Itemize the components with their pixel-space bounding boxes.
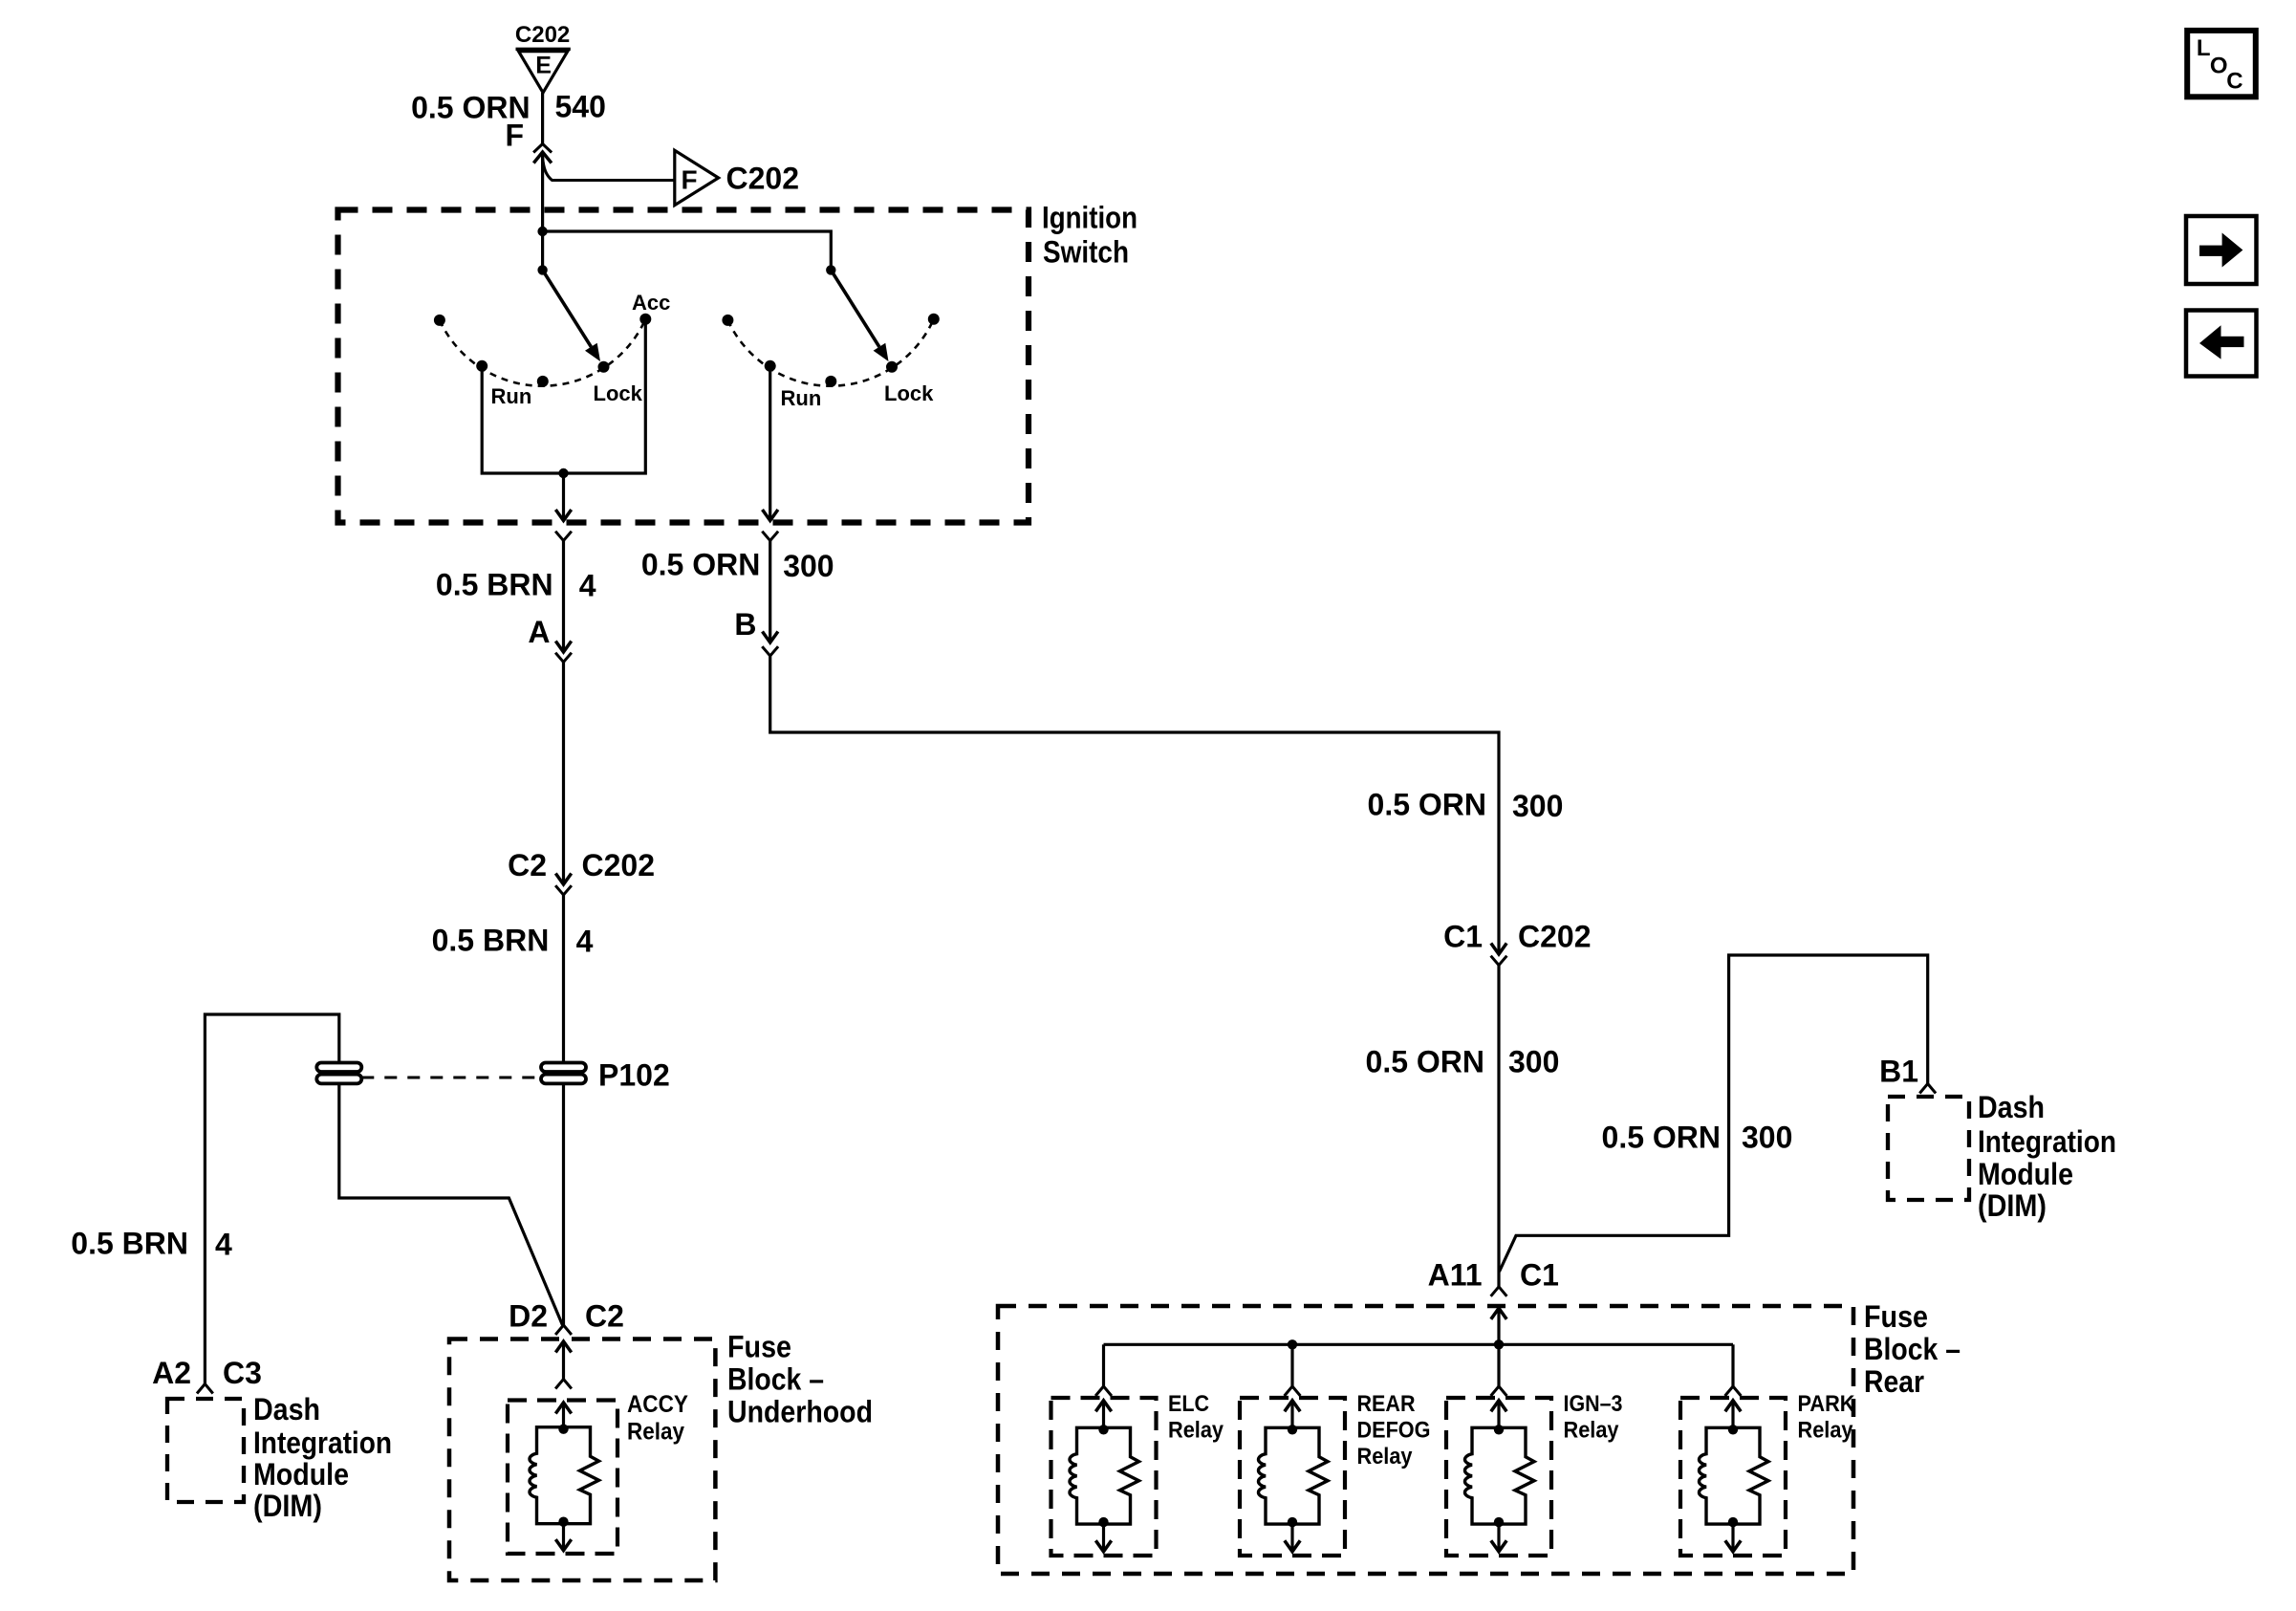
svg-text:Lock: Lock	[594, 381, 643, 405]
svg-text:IGN–3: IGN–3	[1564, 1391, 1623, 1417]
arrow out of IGN-3 relay	[1497, 1524, 1500, 1552]
svg-text:C2: C2	[585, 1299, 624, 1334]
svg-text:Dash: Dash	[253, 1392, 320, 1426]
svg-text:4: 4	[576, 924, 594, 958]
svg-text:Ignition: Ignition	[1042, 201, 1137, 235]
PARK relay dashed box	[1680, 1398, 1786, 1556]
ignition switch dashed box	[338, 210, 1029, 523]
svg-text:540: 540	[555, 89, 606, 123]
bus drop to IGN-3 relay	[1497, 1344, 1500, 1386]
svg-text:300: 300	[1512, 789, 1563, 823]
ELC relay dashed box	[1051, 1398, 1157, 1556]
svg-text:4: 4	[579, 568, 596, 602]
svg-text:F: F	[505, 118, 524, 152]
wire 540 from C202-E down	[541, 93, 544, 144]
svg-text:0.5 ORN: 0.5 ORN	[1368, 787, 1486, 821]
chevron below ignition switch (right output)	[762, 532, 778, 541]
svg-text:Block –: Block –	[1864, 1332, 1960, 1366]
bus drop to ELC relay	[1102, 1344, 1105, 1386]
svg-text:C202: C202	[1518, 919, 1592, 953]
svg-text:0.5 ORN: 0.5 ORN	[1602, 1120, 1721, 1154]
chevron at ELC relay input	[1095, 1386, 1112, 1396]
svg-text:C1: C1	[1520, 1258, 1559, 1293]
Dash Integration Module (DIM) dashed box (left)	[167, 1399, 244, 1502]
svg-text:0.5 ORN: 0.5 ORN	[641, 548, 760, 582]
svg-text:0.5 BRN: 0.5 BRN	[71, 1227, 188, 1261]
arrow out of ELC relay	[1102, 1524, 1105, 1552]
arrow into PARK relay	[1725, 1401, 1741, 1412]
right switch contact arc (dashed)	[727, 319, 933, 386]
REAR DEFOG relay dashed box	[1240, 1398, 1345, 1556]
chevron below ignition switch (left output)	[555, 532, 572, 541]
svg-text:Run: Run	[781, 386, 822, 410]
svg-text:F: F	[681, 165, 697, 195]
chevron into DIM at A2	[197, 1384, 213, 1394]
arrow out of PARK relay	[1731, 1524, 1734, 1552]
right switch arm (wiper) with arrow	[831, 270, 879, 346]
chevron at IGN-3 relay input	[1491, 1386, 1507, 1396]
svg-text:DEFOG: DEFOG	[1357, 1418, 1431, 1444]
svg-text:Integration: Integration	[253, 1426, 392, 1460]
svg-text:Relay: Relay	[1798, 1418, 1854, 1444]
left switch contact dots	[434, 315, 445, 326]
grommet P102 (left, branch wire)	[316, 1063, 361, 1073]
svg-text:D2: D2	[509, 1299, 548, 1334]
arrow out of REAR DEFOG relay	[1290, 1524, 1293, 1552]
wire from right Run contact leaving ignition switch	[769, 371, 771, 521]
svg-text:Module: Module	[1978, 1157, 2073, 1191]
REAR DEFOG relay coil/resistor element	[1258, 1427, 1328, 1524]
svg-text:Run: Run	[491, 384, 532, 408]
svg-text:(DIM): (DIM)	[1978, 1188, 2047, 1223]
svg-text:Dash: Dash	[1978, 1090, 2045, 1124]
svg-text:C1: C1	[1443, 919, 1483, 953]
bus drop to REAR DEFOG relay	[1290, 1344, 1293, 1386]
chevron into fuse block at D2	[555, 1325, 572, 1335]
svg-text:Lock: Lock	[884, 381, 934, 405]
svg-text:Fuse: Fuse	[1864, 1299, 1928, 1334]
LOC legend box	[2187, 31, 2256, 97]
chevron at REAR DEFOG relay input	[1285, 1386, 1301, 1396]
svg-text:Switch: Switch	[1043, 235, 1129, 270]
chevron at ACCY relay input	[555, 1380, 572, 1389]
svg-text:4: 4	[215, 1228, 232, 1262]
svg-text:300: 300	[1508, 1044, 1559, 1078]
connector F triangle to C202	[675, 150, 719, 205]
svg-text:A: A	[528, 615, 550, 649]
PARK relay coil/resistor element	[1699, 1427, 1768, 1524]
output junction dot	[558, 468, 568, 478]
left switch arm (wiper) with arrow	[543, 270, 592, 346]
svg-text:C3: C3	[223, 1356, 262, 1390]
svg-text:Relay: Relay	[627, 1419, 684, 1446]
wire from Acc contact to output junction	[564, 324, 646, 473]
grommet P102 (right, main wire)	[541, 1063, 586, 1073]
arrow out of ACCY relay	[562, 1524, 565, 1551]
svg-text:0.5 BRN: 0.5 BRN	[436, 567, 553, 601]
chevron into fuse block rear at A11	[1491, 1287, 1507, 1296]
svg-text:ELC: ELC	[1168, 1391, 1209, 1417]
branch wire from D2 node to DIM A2	[205, 1014, 562, 1384]
bus junction dot (IGN-3)	[1494, 1339, 1504, 1349]
arrow up + wire into ignition switch	[533, 152, 552, 163]
next-page arrow icon (right)	[2186, 216, 2257, 284]
IGN-3 relay dashed box	[1446, 1398, 1551, 1556]
svg-text:A11: A11	[1428, 1258, 1483, 1293]
svg-text:0.5 ORN: 0.5 ORN	[1366, 1044, 1484, 1078]
right switch contact dots	[722, 315, 733, 326]
inline connector chevron at ignition switch pin F	[533, 144, 552, 153]
arrow into ELC relay	[1095, 1401, 1111, 1412]
bus junction dot (REAR DEFOG)	[1288, 1339, 1297, 1349]
IGN-3 relay coil/resistor element	[1464, 1427, 1534, 1524]
branch wire to F of C202	[543, 157, 675, 181]
svg-text:O: O	[2210, 54, 2228, 79]
svg-text:C202: C202	[515, 22, 570, 48]
svg-text:Acc: Acc	[632, 291, 670, 315]
svg-text:300: 300	[1742, 1120, 1792, 1154]
svg-text:L: L	[2197, 35, 2211, 61]
svg-text:Relay: Relay	[1564, 1418, 1620, 1444]
fuse block rear dashed box	[998, 1306, 1853, 1574]
junction node on E feed	[537, 227, 547, 236]
wire from left Run contact to output junction	[482, 371, 563, 473]
left switch pole dot	[537, 265, 547, 274]
ACCY relay dashed box	[508, 1401, 617, 1555]
chevron into DIM at B1	[1919, 1084, 1936, 1094]
ELC relay coil/resistor element	[1070, 1427, 1139, 1524]
Dash Integration Module (DIM) dashed box (right)	[1888, 1097, 1969, 1200]
svg-text:P102: P102	[598, 1057, 670, 1092]
ACCY relay coil/resistor element	[530, 1427, 599, 1524]
arrow into ACCY relay	[555, 1403, 571, 1414]
svg-text:B1: B1	[1879, 1054, 1918, 1088]
relay feed bus inside fuse block rear	[1104, 1343, 1734, 1346]
wire B down and across to the right	[770, 656, 1499, 954]
inline connector B (arrow + chevron)	[763, 632, 778, 643]
bus drop to PARK relay	[1731, 1344, 1734, 1386]
svg-text:REAR: REAR	[1357, 1391, 1416, 1417]
svg-text:Relay: Relay	[1357, 1444, 1414, 1469]
dashed pass-through line P102	[361, 1077, 541, 1079]
right switch pole dot	[826, 265, 835, 274]
svg-text:C: C	[2226, 69, 2242, 95]
wire from junction to right switch pole	[543, 231, 832, 270]
fuse block underhood dashed box	[449, 1339, 715, 1581]
svg-text:Underhood: Underhood	[727, 1395, 873, 1429]
svg-text:Integration: Integration	[1978, 1124, 2116, 1159]
svg-text:0.5 BRN: 0.5 BRN	[432, 923, 550, 957]
svg-text:(DIM): (DIM)	[253, 1489, 322, 1523]
svg-text:Block –: Block –	[727, 1362, 824, 1397]
svg-text:A2: A2	[152, 1356, 191, 1390]
left output wire leaving ignition switch	[562, 473, 565, 521]
svg-text:Rear: Rear	[1864, 1364, 1924, 1399]
arrow into fuse block underhood	[555, 1341, 571, 1353]
svg-text:Relay: Relay	[1168, 1418, 1224, 1444]
svg-text:Module: Module	[253, 1457, 349, 1491]
svg-text:C2: C2	[508, 848, 547, 882]
svg-text:E: E	[535, 53, 552, 79]
arrow into fuse block rear	[1491, 1308, 1506, 1319]
arrow into REAR DEFOG relay	[1285, 1401, 1300, 1412]
svg-text:C202: C202	[726, 162, 800, 196]
left switch contact arc (dashed)	[440, 319, 645, 386]
branch wire to DIM B1	[1500, 955, 1928, 1272]
svg-text:300: 300	[783, 549, 834, 583]
previous-page arrow icon (left)	[2186, 311, 2257, 377]
svg-text:ACCY: ACCY	[627, 1391, 688, 1418]
connector C202 triangle E (power feed)	[516, 48, 571, 51]
svg-text:PARK: PARK	[1798, 1391, 1856, 1417]
inline connector A (arrow + chevron)	[555, 642, 571, 653]
arrow into IGN-3 relay	[1491, 1401, 1506, 1412]
svg-text:C202: C202	[582, 848, 656, 882]
svg-text:B: B	[734, 607, 756, 642]
svg-text:Fuse: Fuse	[727, 1330, 791, 1364]
chevron at PARK relay input	[1725, 1386, 1742, 1396]
